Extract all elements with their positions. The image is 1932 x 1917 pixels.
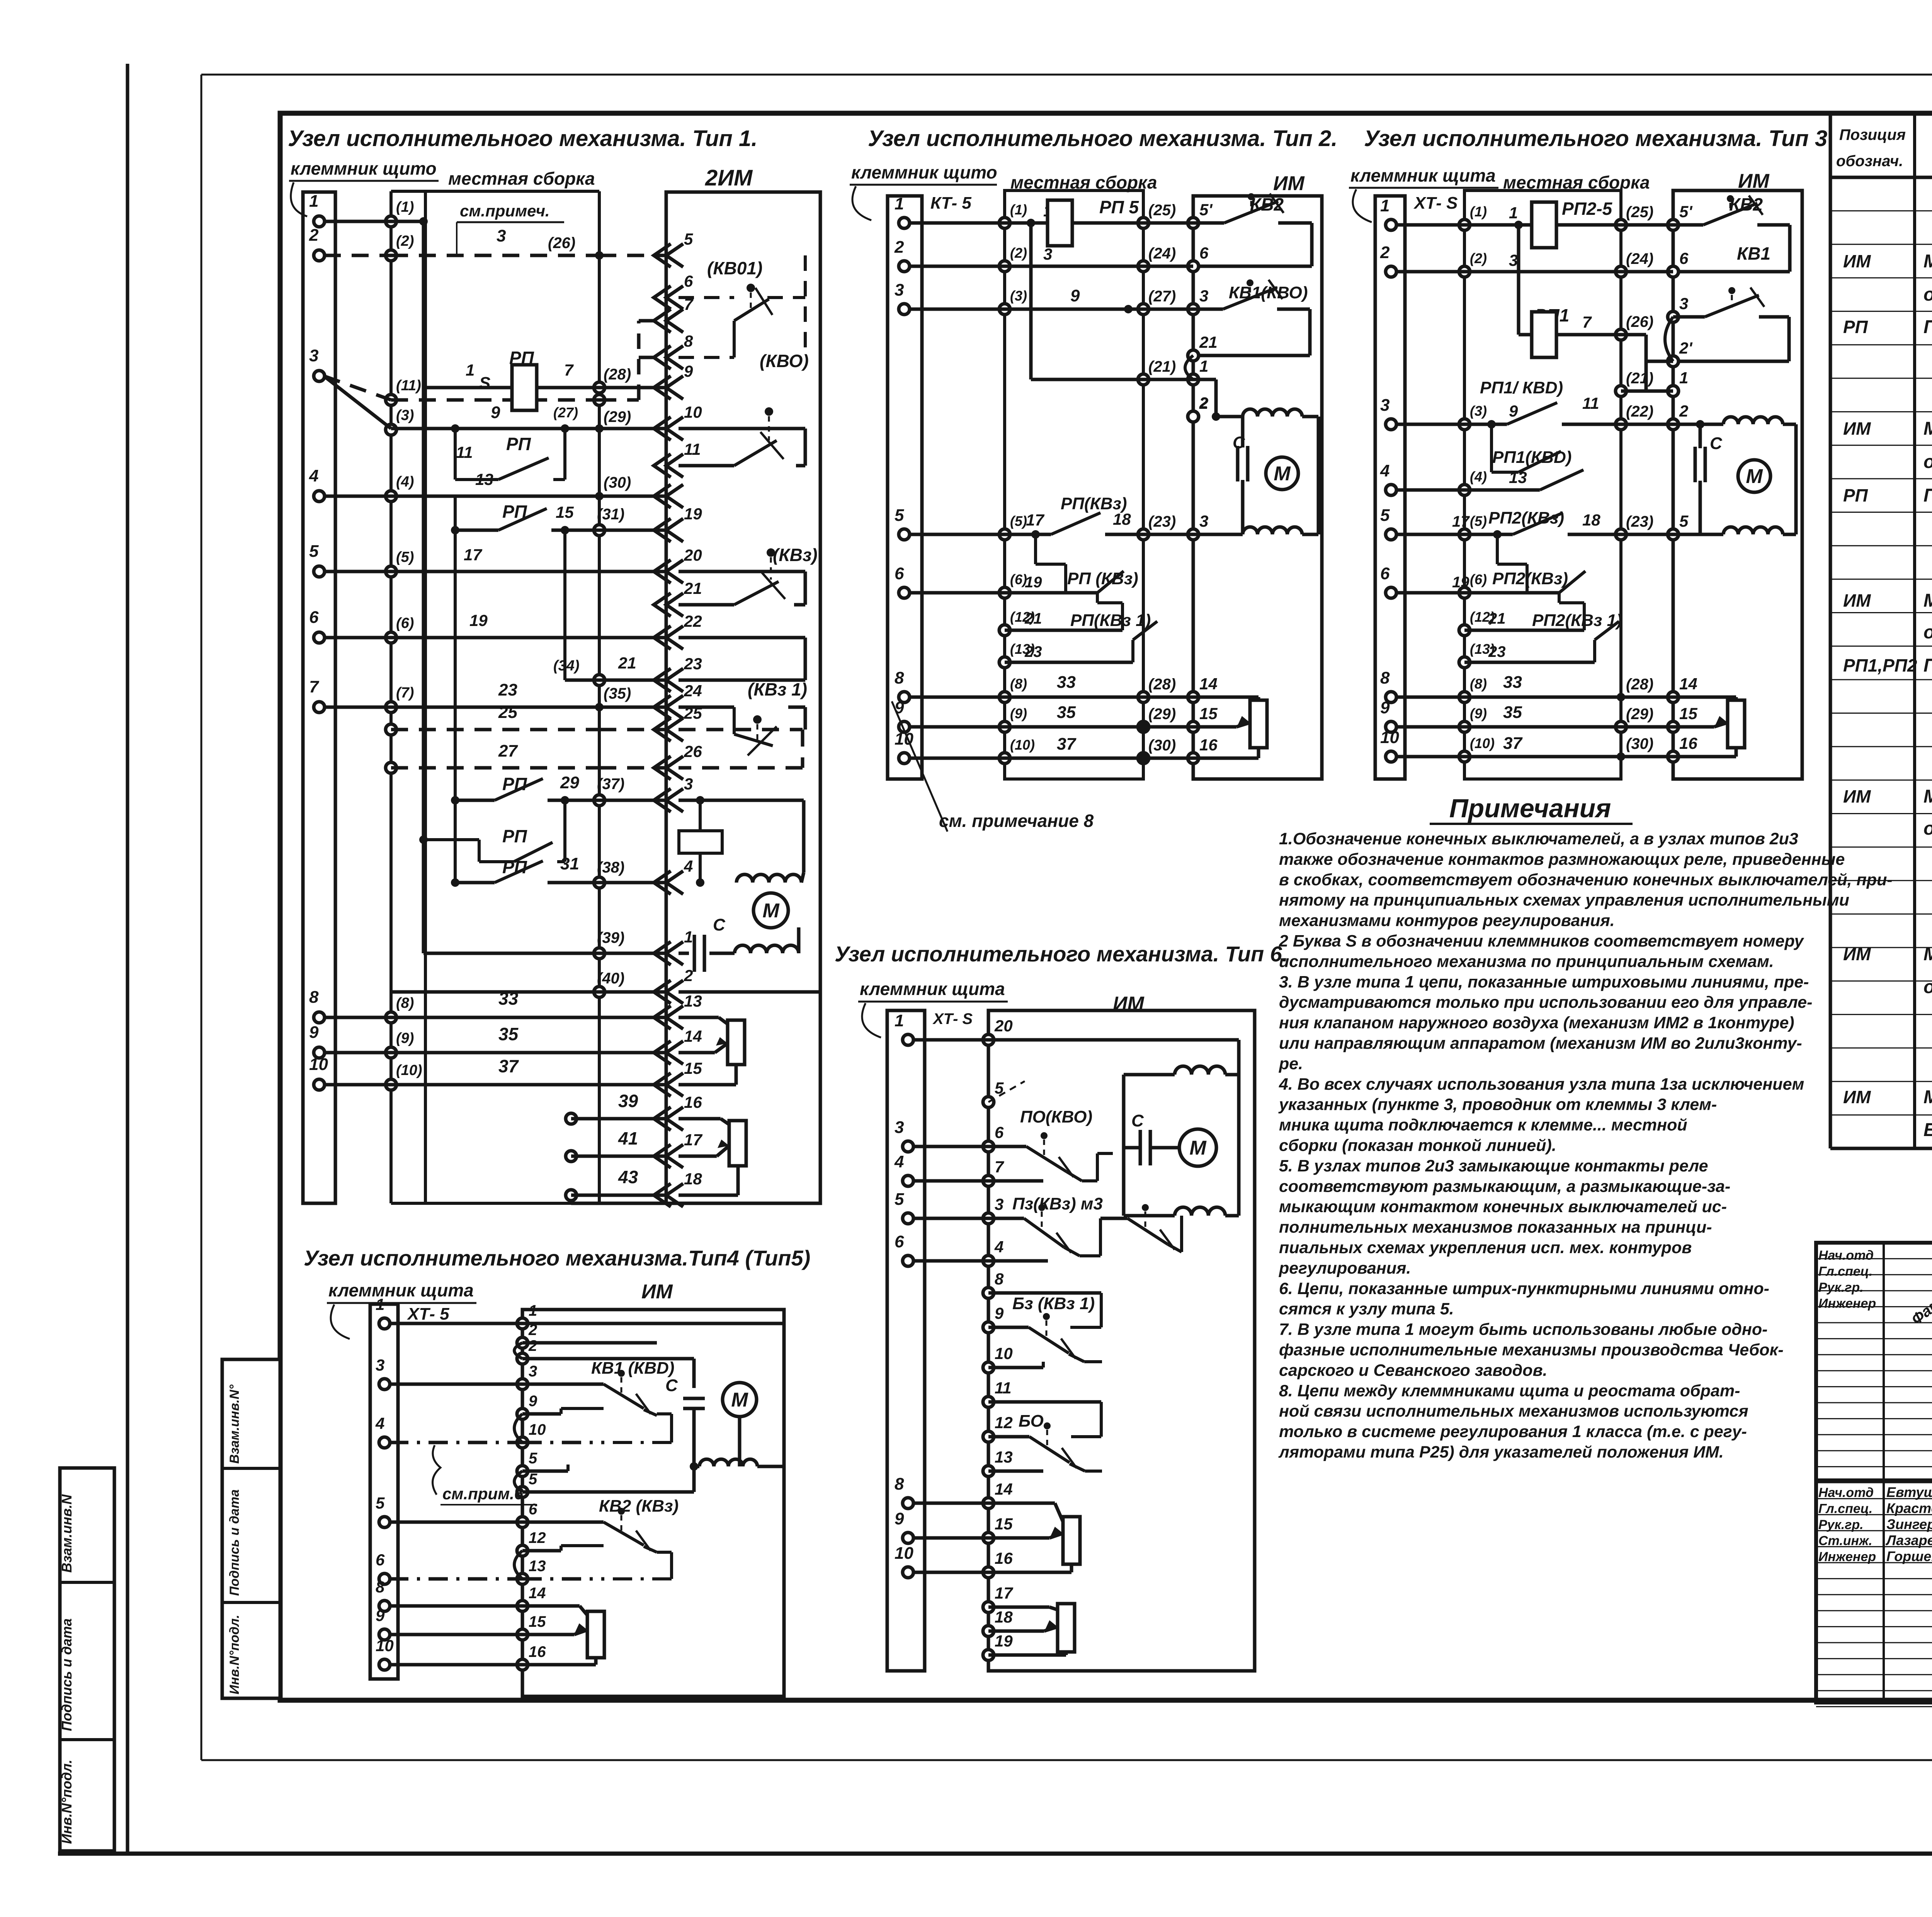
svg-text:2: 2 [684,966,693,985]
svg-text:7: 7 [309,677,320,696]
Type 6 wires from strip [913,1038,988,1042]
svg-text:8: 8 [376,1578,385,1596]
svg-text:22: 22 [684,612,702,630]
svg-text:Крастошевой: Крастошевой [1886,1500,1932,1516]
svg-text:(КВО): (КВО) [760,351,809,371]
svg-text:10: 10 [895,1544,913,1563]
svg-text:4: 4 [684,857,693,875]
Type 4 wire 5 stub [522,1470,568,1473]
svg-text:39: 39 [618,1091,638,1111]
svg-text:М: М [1746,465,1763,488]
svg-text:S: S [479,374,490,393]
Type 4 see note leader [568,1464,580,1465]
svg-text:8: 8 [895,1475,904,1493]
svg-text:М: М [762,900,780,922]
svg-text:1: 1 [895,1011,904,1030]
svg-text:2ИМ: 2ИМ [705,165,753,191]
svg-text:18: 18 [1582,511,1600,529]
Type 3 wire to (21) and 1 [1621,390,1673,393]
Type 3 motor M [1738,460,1770,492]
svg-text:ИМ: ИМ [1843,944,1871,964]
svg-text:1: 1 [895,194,904,213]
svg-text:1: 1 [1509,204,1518,222]
svg-text:7: 7 [1582,313,1592,331]
svg-text:регулирования.: регулирования. [1279,1259,1411,1277]
svg-text:6: 6 [1199,244,1209,262]
sheet thin border rectangle [201,74,1932,76]
svg-text:КТ- 5: КТ- 5 [930,194,971,213]
svg-text:6. Цепи, показанные штрих-пун: 6. Цепи, показанные штрих-пунктирными ли… [1279,1279,1769,1298]
Type 1 dashed loops 25-26 [679,728,803,731]
svg-text:26: 26 [684,742,702,760]
svg-text:19: 19 [684,505,702,523]
svg-text:23: 23 [1024,643,1042,660]
svg-text:(10): (10) [396,1062,422,1078]
svg-text:только в системе регулирова: только в системе регулирования 1 класса … [1279,1422,1747,1441]
svg-text:6: 6 [684,272,693,290]
Type 4 wire 1 inside [522,1322,784,1325]
svg-text:35: 35 [1057,703,1076,722]
svg-text:4: 4 [375,1414,384,1432]
svg-text:(31): (31) [597,506,624,523]
svg-text:5: 5 [895,1190,904,1209]
svg-text:5': 5' [1199,201,1213,219]
svg-text:37: 37 [1057,735,1077,754]
svg-text:РП(КВз): РП(КВз) [1061,494,1127,513]
svg-text:в скобках, соответствует обозн: в скобках, соответствует обозначению кон… [1279,871,1893,889]
svg-text:РП: РП [1843,485,1868,505]
main drawing frame [280,113,1932,1700]
Type 4 wire 5prime to winding [522,1490,694,1494]
svg-text:(10): (10) [1470,735,1495,751]
Type 3 local assembly box [1464,191,1621,779]
svg-text:7: 7 [564,361,574,379]
svg-text:11: 11 [456,443,473,461]
Type 2 left assembly terminals [999,218,1010,228]
svg-text:ХТ- S: ХТ- S [932,1010,973,1027]
svg-text:20: 20 [994,1017,1013,1035]
svg-text:33: 33 [1503,673,1522,692]
svg-text:Нач.отд: Нач.отд [1818,1485,1874,1500]
Type 1 motor M [753,893,788,928]
svg-text:(30): (30) [1148,737,1176,754]
Type 1 terminal strip [303,192,335,1203]
svg-text:однооборотный МЭО- 4/63- 063: однооборотный МЭО- 4/63- 063 [1923,284,1932,305]
Type 2 local assembly box [1005,191,1143,779]
svg-text:Механизм исполнительный элект: Механизм исполнительный электрический [1923,1087,1932,1107]
svg-text:4: 4 [309,466,318,485]
svg-text:3: 3 [1199,287,1208,305]
svg-text:10: 10 [529,1421,546,1438]
svg-text:(21): (21) [1626,370,1653,387]
svg-text:(27): (27) [553,405,578,420]
svg-text:13: 13 [995,1448,1013,1466]
svg-text:ХТ- S: ХТ- S [1413,194,1458,213]
svg-text:2: 2 [894,238,904,257]
svg-text:15: 15 [995,1515,1013,1533]
svg-text:клеммник щита: клеммник щита [860,979,1005,999]
svg-text:16: 16 [529,1643,546,1660]
svg-text:1: 1 [529,1302,537,1319]
svg-text:9: 9 [376,1606,385,1624]
svg-text:3: 3 [529,1363,537,1380]
svg-text:Инв.N°подл.: Инв.N°подл. [227,1615,242,1694]
title block stamp verticals [1883,1243,1885,1703]
svg-text:(30): (30) [1626,735,1653,752]
svg-text:КВ1: КВ1 [1737,243,1770,264]
svg-text:2: 2 [1679,402,1688,420]
svg-text:(7): (7) [396,685,414,701]
svg-text:7. В узле типа 1 могут быть: 7. В узле типа 1 могут быть использованы… [1279,1320,1767,1339]
svg-text:М: М [731,1389,748,1411]
Type 6 winding bottom [1175,1207,1225,1216]
svg-text:5: 5 [1380,506,1390,525]
svg-text:РП: РП [1843,317,1868,337]
svg-text:(2): (2) [1470,250,1487,266]
svg-text:ПО(КВО): ПО(КВО) [1020,1107,1092,1126]
svg-text:РП 5: РП 5 [1099,197,1139,217]
sheet outer left edge line [126,64,129,1854]
svg-text:Бз (КВз 1): Бз (КВз 1) [1012,1294,1095,1313]
parts table outer verticals [1829,113,1832,1148]
Type 2 motor branch wire 2 [1188,411,1199,422]
svg-text:19: 19 [469,611,488,629]
svg-text:(25): (25) [1148,202,1176,219]
svg-text:6: 6 [1679,249,1689,267]
Type 2 actuator terminals [1188,218,1199,228]
svg-text:(26): (26) [548,235,575,252]
svg-text:Нач.отд: Нач.отд [1818,1248,1874,1263]
svg-text:РП: РП [506,434,531,454]
Type 6 actuator terminals [983,1034,994,1045]
svg-text:23: 23 [1488,643,1506,660]
svg-text:16: 16 [995,1549,1013,1567]
svg-text:обознач.: обознач. [1836,153,1903,170]
svg-text:ре.: ре. [1279,1055,1303,1073]
bottom thick sheet line [58,1852,1932,1856]
svg-text:11: 11 [684,440,701,458]
svg-text:13: 13 [529,1558,546,1575]
svg-text:13: 13 [1509,468,1527,486]
svg-text:16: 16 [1199,736,1218,754]
svg-text:19: 19 [1025,574,1042,591]
svg-text:Взам.инв.N°: Взам.инв.N° [227,1385,242,1464]
svg-text:6: 6 [995,1123,1004,1141]
svg-text:3. В узле типа 1 цепи, показан: 3. В узле типа 1 цепи, показанные штрихо… [1279,973,1809,991]
title block outer frame [1816,1243,1932,1703]
svg-text:(27): (27) [1148,288,1176,305]
svg-text:мыкающим контактом конечных: мыкающим контактом конечных выключателей… [1279,1197,1727,1216]
svg-text:1: 1 [466,361,474,379]
svg-text:механизмами контуров регулир: механизмами контуров регулирования. [1279,912,1615,930]
svg-text:5: 5 [376,1494,385,1512]
svg-text:Евтушенко: Евтушенко [1886,1484,1932,1500]
svg-text:9: 9 [1380,698,1390,717]
svg-text:ИМ: ИМ [641,1281,673,1303]
svg-text:2 Буква S в обозначении клемм: 2 Буква S в обозначении клеммников соотв… [1279,932,1804,951]
svg-text:Узел исполнительного механизма: Узел исполнительного механизма. Тип 1. [288,126,757,151]
svg-text:6: 6 [376,1551,385,1569]
svg-text:(9): (9) [1010,706,1027,721]
svg-text:однооборотный МЭО-0,63/□-0,75: однооборотный МЭО-0,63/□-0,75 ГОСТ 7192-… [1923,452,1932,472]
svg-text:(24): (24) [1148,245,1176,262]
svg-text:РП2(КВз): РП2(КВз) [1492,569,1568,588]
svg-text:местная сборка: местная сборка [448,168,595,189]
Type 2 actuator box IM [1193,196,1322,779]
svg-text:9: 9 [684,362,693,380]
svg-text:10: 10 [1380,728,1399,747]
Type 6 rheostat 1 [1063,1517,1080,1564]
Type 2 wire to (21) [1031,378,1193,381]
svg-text:(5): (5) [1470,513,1487,529]
svg-text:см.примеч.: см.примеч. [460,202,550,220]
svg-text:18: 18 [684,1170,702,1188]
Type 1 wire 2 motor return [391,990,599,994]
svg-text:(5): (5) [1010,513,1027,529]
svg-text:исполнительного механизма по п: исполнительного механизма по принципиаль… [1279,952,1774,971]
Type 2 terminal strip [888,196,922,779]
svg-text:С: С [665,1376,678,1395]
svg-text:8: 8 [895,668,904,687]
Type 2 bus down from wire1 [1029,223,1033,379]
Type 1 local assembly box [389,191,393,1203]
svg-text:М: М [1274,463,1291,485]
svg-text:С: С [713,915,726,934]
svg-text:ИМ: ИМ [1843,1087,1871,1107]
svg-text:(11): (11) [396,378,421,394]
Type 3 actuator terminals [1668,219,1679,230]
svg-text:(9): (9) [1470,706,1487,721]
svg-text:ной связи исполнительных ме: ной связи исполнительных механизмов испо… [1279,1402,1748,1420]
svg-text:14: 14 [529,1585,546,1602]
svg-text:3: 3 [309,346,318,365]
svg-text:16: 16 [1679,734,1697,752]
svg-text:(28): (28) [604,366,631,383]
svg-text:5: 5 [309,542,319,561]
svg-text:3: 3 [895,281,904,299]
svg-text:21: 21 [684,579,702,597]
svg-text:11: 11 [1582,394,1599,412]
svg-text:С: С [1710,434,1723,453]
svg-text:(26): (26) [1626,313,1653,330]
svg-text:2: 2 [1199,395,1208,412]
Type 1 motor winding 1 [736,874,801,883]
Type 1 right assembly terminals [595,251,604,260]
inner left stamp box [222,1359,280,1698]
svg-text:Рук.гр.: Рук.гр. [1818,1280,1864,1295]
svg-text:(6): (6) [396,615,414,631]
Type 1 wire 1 [324,220,391,223]
Type 3 actuator box IM [1673,191,1802,779]
svg-text:Пускатель магнитный ПМЕ-071: Пускатель магнитный ПМЕ-071 [1923,655,1932,676]
svg-text:(38): (38) [597,859,624,876]
svg-text:(1): (1) [1470,204,1487,219]
Type 6 terminal strip [887,1010,925,1671]
svg-text:М: М [1189,1137,1207,1159]
svg-text:пиальных схемах укрепления: пиальных схемах укрепления исп. мех. кон… [1279,1238,1692,1257]
svg-text:17: 17 [684,1131,702,1149]
svg-text:Инженер: Инженер [1818,1296,1876,1311]
svg-text:3: 3 [376,1356,384,1374]
Type 6 actuator box IM [988,1010,1255,1671]
svg-text:8: 8 [1380,668,1390,687]
svg-text:(8): (8) [1010,676,1027,692]
svg-text:1: 1 [309,192,318,211]
Type 3 terminal strip [1375,196,1405,779]
Type 1 loop 22 [679,636,805,640]
Type 6 winding top [1175,1066,1225,1075]
svg-text:21: 21 [1199,333,1218,351]
svg-text:5': 5' [1679,202,1693,221]
svg-text:клеммник щита: клеммник щита [1350,165,1496,185]
svg-text:29: 29 [560,773,579,792]
Type 2 motor M [1266,457,1298,490]
svg-text:21: 21 [618,654,636,672]
svg-text:полнительных механизмов пока: полнительных механизмов показанных на пр… [1279,1218,1712,1237]
Type 4 actuator terminals [517,1318,528,1329]
svg-text:3: 3 [995,1195,1003,1213]
Type 6 rheostat 2 [1058,1604,1075,1652]
svg-text:9: 9 [309,1023,319,1042]
svg-text:сборки (показан тонкой лини: сборки (показан тонкой линией). [1279,1136,1556,1155]
svg-text:Инженер: Инженер [1818,1550,1876,1564]
svg-text:РП1,РП2: РП1,РП2 [1843,655,1917,675]
svg-text:(9): (9) [396,1030,414,1046]
svg-text:10: 10 [376,1636,394,1655]
Type 2 actuator hook 21-1 [1185,356,1193,379]
svg-text:однооборотный МЭО-0,63/□ -0,25: однооборотный МЭО-0,63/□ -0,25;ГОСТ 7192… [1923,622,1932,643]
svg-text:КВ1 (КВD): КВ1 (КВD) [591,1359,674,1378]
svg-text:(КВз 1): (КВз 1) [748,679,807,699]
svg-text:РП: РП [502,826,527,846]
svg-text:9: 9 [1070,286,1080,305]
svg-text:43: 43 [618,1167,638,1187]
svg-text:(25): (25) [1626,204,1653,221]
svg-text:(8): (8) [396,995,414,1011]
svg-text:18: 18 [995,1608,1013,1626]
svg-text:2: 2 [528,1337,537,1354]
svg-text:Позиция: Позиция [1839,126,1906,143]
svg-text:Механизм исполнительный элект: Механизм исполнительный электрический [1923,944,1932,964]
svg-text:БО: БО [1019,1412,1044,1431]
svg-text:(10): (10) [1010,737,1035,753]
svg-text:Узел исполнительного механизма: Узел исполнительного механизма. Тип 6. [835,942,1288,966]
outer left stamp box [60,1468,114,1851]
Type 3 right assembly terminals [1616,219,1626,230]
svg-text:3: 3 [1043,245,1052,263]
Type 4 wire 2prime to capacitor [522,1357,694,1361]
svg-text:16: 16 [684,1093,702,1111]
svg-text:Узел исполнительного механизма: Узел исполнительного механизма. Тип 2. [868,126,1337,151]
svg-text:также обозначение контактов ра: также обозначение контактов размножающих… [1279,850,1845,869]
svg-text:17: 17 [995,1584,1013,1602]
svg-text:1: 1 [684,928,693,946]
svg-text:15: 15 [684,1059,702,1077]
svg-text:4: 4 [994,1238,1003,1256]
Type 4 terminal strip [370,1304,398,1679]
svg-text:14: 14 [684,1027,702,1045]
svg-text:11: 11 [995,1379,1012,1397]
svg-text:(1): (1) [396,199,414,215]
Type 1 left assembly terminals [386,216,396,227]
svg-text:Гл.спец.: Гл.спец. [1818,1502,1872,1516]
svg-text:(28): (28) [1148,676,1176,693]
svg-text:ИМ: ИМ [1843,786,1871,806]
svg-text:С: С [1131,1111,1144,1130]
svg-text:КВ1(КВО): КВ1(КВО) [1229,283,1308,302]
svg-text:однооборотный МЭО-0,63/□ - 0,2: однооборотный МЭО-0,63/□ - 0,25;ГОСТ 719… [1923,818,1932,839]
Type 1 wire 2 return loop [679,990,820,994]
svg-text:8: 8 [309,988,319,1007]
svg-text:РП2(КВз 1): РП2(КВз 1) [1532,611,1622,630]
Type 2 rheostat [1250,700,1267,748]
svg-text:Подпись и дата: Подпись и дата [59,1618,75,1731]
svg-text:(30): (30) [604,474,631,491]
svg-text:35: 35 [498,1024,519,1044]
parts table row grid [1830,210,1932,211]
svg-text:ЕСПА 02- ПВ: ЕСПА 02- ПВ [1923,1120,1932,1140]
svg-text:Механизм исполнительный электр: Механизм исполнительный электрический [1923,786,1932,807]
Type 1 rheostat 1 [728,1020,745,1065]
parts table header row [1830,176,1932,179]
svg-text:Инв.N°подл.: Инв.N°подл. [59,1760,75,1844]
Type 3 motor winding 2 [1673,533,1723,536]
svg-text:(23): (23) [1626,513,1653,530]
svg-text:нятому на принципиальных схема: нятому на принципиальных схемах управлен… [1279,891,1849,910]
svg-text:соответствуют размыкающим, а: соответствуют размыкающим, а размыкающие… [1279,1177,1730,1196]
svg-text:10: 10 [995,1344,1013,1362]
svg-text:3: 3 [684,775,693,793]
svg-text:1: 1 [1199,357,1208,375]
svg-text:(24): (24) [1626,250,1653,267]
svg-text:Горшенина: Горшенина [1886,1548,1932,1564]
svg-text:сарского и Севанского завод: сарского и Севанского заводов. [1279,1361,1548,1379]
svg-text:РП (КВз): РП (КВз) [1067,569,1138,588]
svg-text:(2): (2) [1010,245,1027,261]
Type 1 bus from terminal 1 [422,221,425,883]
Type 1 wire 1 motor [423,952,599,955]
svg-text:3: 3 [1509,251,1518,269]
svg-text:6: 6 [309,608,319,627]
svg-text:37: 37 [1503,734,1523,753]
svg-text:2: 2 [1380,243,1390,262]
svg-text:3: 3 [895,1118,904,1137]
svg-text:33: 33 [1057,673,1076,692]
svg-text:ХТ- 5: ХТ- 5 [406,1305,449,1323]
Type 2 right assembly terminals [1138,218,1149,228]
svg-text:(6): (6) [1470,572,1487,587]
svg-text:20: 20 [684,546,702,564]
svg-text:см.прим.6: см.прим.6 [442,1485,524,1503]
svg-text:4. Во всех случаях использован: 4. Во всех случаях использования узла ти… [1279,1075,1804,1094]
svg-text:(21): (21) [1148,358,1176,375]
Type 1 rheostat 2 [729,1121,746,1166]
svg-text:1: 1 [1679,369,1688,387]
Type 4 actuator box IM [522,1310,784,1696]
svg-text:12: 12 [529,1529,546,1546]
svg-text:клеммник щито: клеммник щито [851,162,997,182]
svg-text:(37): (37) [597,776,624,793]
Type 1 actuator edge connectors [654,244,683,267]
svg-text:(4): (4) [1470,469,1487,485]
svg-text:25: 25 [498,703,517,722]
svg-text:(4): (4) [396,474,414,490]
parts table bottom line [1830,1147,1932,1150]
svg-text:4: 4 [894,1152,904,1171]
svg-text:35: 35 [1503,703,1522,722]
svg-text:(39): (39) [597,929,624,946]
svg-text:24: 24 [684,682,702,700]
